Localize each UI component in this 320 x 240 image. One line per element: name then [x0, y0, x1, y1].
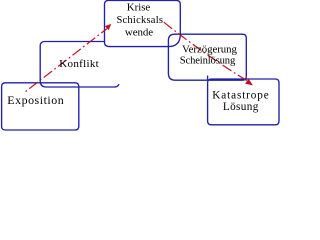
svg-text:Verzögerung: Verzögerung [182, 44, 237, 56]
box Konflikt (open path, right side missing) [40, 42, 119, 88]
arrow Exposition->Krise (dash-dot line) [24, 29, 107, 93]
nub above Katastrope top-left corner [207, 76, 209, 80]
svg-text:Konflikt: Konflikt [59, 58, 98, 70]
box Krise [105, 1, 181, 47]
box Verzögerung [168, 34, 246, 80]
box Katastrope [208, 79, 279, 125]
svg-text:wende: wende [125, 27, 153, 39]
svg-text:Krise: Krise [127, 1, 151, 13]
svg-text:Katastrope: Katastrope [212, 90, 268, 102]
svg-text:Schicksals: Schicksals [116, 15, 163, 26]
box Exposition [2, 83, 79, 130]
svg-text:Scheinlösung: Scheinlösung [180, 55, 236, 66]
arrowhead at Krise [105, 22, 113, 30]
svg-text:Exposition: Exposition [7, 93, 63, 107]
svg-text:Lösung: Lösung [223, 101, 259, 113]
arrowhead at Katastrope [245, 79, 255, 88]
arrow Krise->Katastrope (dash-dot line) [164, 22, 249, 81]
